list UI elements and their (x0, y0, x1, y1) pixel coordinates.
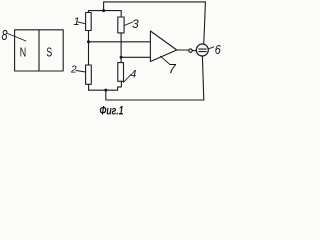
leader for label 4 (124, 75, 132, 83)
resistor R1 (86, 13, 92, 31)
wire: bridge bottom with jog to R4 (89, 81, 122, 90)
svg-text:Фиг.1: Фиг.1 (100, 106, 124, 118)
svg-text:6: 6 (215, 43, 221, 57)
wire: R2 bottom lead (88, 84, 90, 90)
wire: terminal to meter (192, 50, 196, 52)
svg-text:1: 1 (74, 16, 80, 28)
leader for label 2 (76, 71, 86, 73)
wire: bridge top (R1 top - R3 top) (88, 11, 121, 17)
wire: right lead down to meter top (204, 2, 206, 44)
svg-text:N: N (20, 45, 26, 60)
junction node B (bridge bottom) (104, 89, 107, 92)
wire: supply riser and top rail (104, 2, 206, 11)
wire: left branch vertical R1-R2 (88, 31, 90, 66)
svg-text:S: S (46, 45, 52, 60)
leader for label 6 (208, 47, 213, 49)
svg-text:8: 8 (2, 27, 8, 44)
leader for label 7 (161, 56, 170, 64)
leader for label 1 (78, 22, 86, 24)
leader for label 8 (8, 34, 27, 42)
meter bars (=) (199, 48, 206, 50)
svg-text:3: 3 (132, 17, 139, 31)
paper background (0, 0, 223, 120)
wire: meter bottom lead (202, 56, 203, 100)
resistor R4 (118, 63, 124, 82)
wire: op-amp output (177, 49, 189, 51)
resistor R2 (86, 65, 92, 84)
meter 6 (circle) (196, 44, 208, 56)
svg-text:4: 4 (130, 68, 136, 80)
leader for label 3 (124, 22, 133, 26)
wire: op-amp lower input from node (121, 56, 150, 58)
svg-text:7: 7 (169, 61, 177, 76)
op-amp U7 triangle (150, 31, 176, 62)
junction node right output (120, 56, 123, 59)
wire: right branch vertical R3-R4 (120, 33, 122, 63)
wire: bottom feed and bottom rail (106, 90, 204, 100)
junction node left output (87, 40, 90, 43)
svg-text:2: 2 (70, 65, 77, 76)
junction node A (bridge top) (102, 9, 105, 12)
magnet box 8 (N/S) (15, 30, 64, 71)
output terminal (small circle) (189, 49, 192, 52)
wire: op-amp upper input from node (89, 41, 151, 43)
magnet divider (38, 30, 40, 71)
resistor R3 (118, 17, 124, 33)
